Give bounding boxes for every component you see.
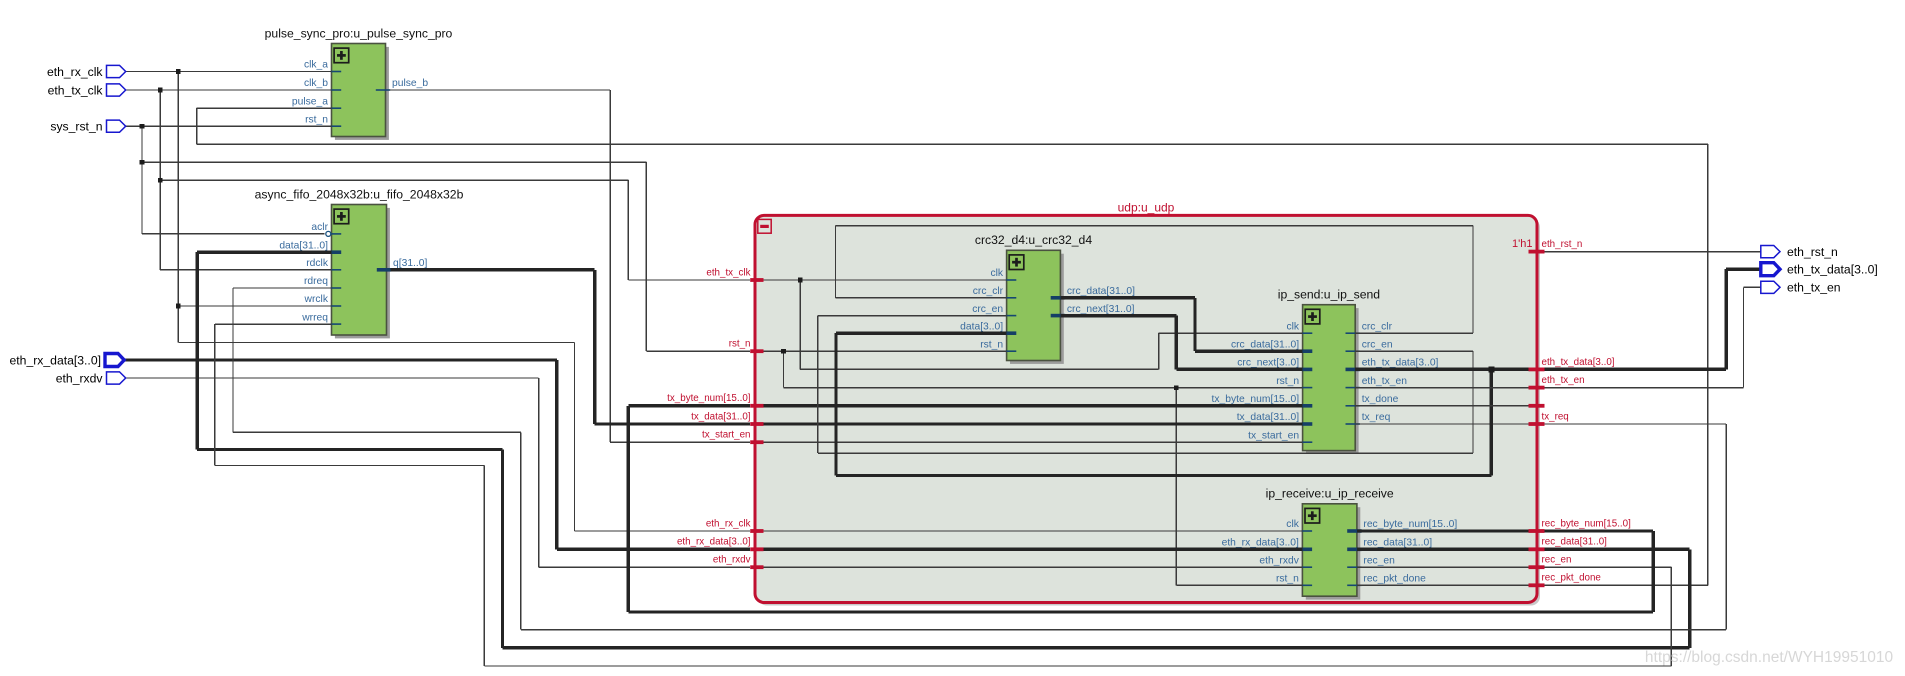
wire net crc_en loop (ip_send crc_en to crc32 crc_en) xyxy=(818,316,1473,454)
svg-text:eth_tx_en: eth_tx_en xyxy=(1787,281,1841,295)
svg-text:sys_rst_n: sys_rst_n xyxy=(50,120,102,134)
svg-text:crc_next[3..0]: crc_next[3..0] xyxy=(1237,358,1299,369)
svg-text:data[31..0]: data[31..0] xyxy=(279,240,328,251)
svg-text:rec_data[31..0]: rec_data[31..0] xyxy=(1542,537,1608,548)
wire net crc_next[31..0] bus (crc32 to ip_send crc_next) xyxy=(1060,316,1302,370)
svg-text:clk: clk xyxy=(991,268,1004,279)
wire net crc_data[31..0] bus (crc32 to ip_send) xyxy=(1060,298,1302,351)
udp port rec_pkt_done (right edge) xyxy=(1529,573,1602,586)
wire net rec_data[31..0] bus (ip_receive rec_data back to fifo data) xyxy=(197,252,1690,648)
svg-text:eth_rxdv: eth_rxdv xyxy=(713,555,751,566)
udp port eth_tx_en (right edge) xyxy=(1529,375,1585,388)
input pin eth_tx_clk xyxy=(48,83,126,97)
output pin eth_tx_data[3..0] xyxy=(1761,263,1878,277)
svg-text:wrclk: wrclk xyxy=(304,294,329,305)
svg-text:rec_pkt_done: rec_pkt_done xyxy=(1542,573,1602,584)
udp port eth_tx_clk (left edge) xyxy=(706,267,763,280)
svg-text:tx_data[31..0]: tx_data[31..0] xyxy=(1237,412,1300,423)
svg-text:pulse_a: pulse_a xyxy=(292,96,328,107)
svg-text:rec_data[31..0]: rec_data[31..0] xyxy=(1363,538,1432,549)
svg-text:eth_rxdv: eth_rxdv xyxy=(1259,555,1299,566)
svg-text:eth_tx_en: eth_tx_en xyxy=(1362,376,1408,387)
svg-text:tx_start_en: tx_start_en xyxy=(702,430,750,441)
svg-text:eth_rst_n: eth_rst_n xyxy=(1542,239,1583,250)
wire net rec_en / wrreq (ip_receive rec_en back to fifo wrreq) xyxy=(215,324,1672,666)
udp port eth_rx_clk (left edge) xyxy=(706,518,764,531)
output pin eth_tx_en xyxy=(1761,281,1841,295)
block ip_send:u_ip_send xyxy=(1212,288,1439,455)
block ip_receive:u_ip_receive xyxy=(1222,487,1458,600)
svg-text:pulse_b: pulse_b xyxy=(392,78,428,89)
udp port eth_tx_data[3..0] (right edge) xyxy=(1529,357,1615,370)
svg-text:tx_req: tx_req xyxy=(1542,411,1569,422)
udp port tx_data[31..0] (left edge) xyxy=(691,411,763,424)
udp port tx_done (right edge) xyxy=(1529,404,1545,408)
svg-text:crc_clr: crc_clr xyxy=(973,286,1004,297)
udp port rst_n (left edge) xyxy=(729,339,764,352)
udp port tx_byte_num[15..0] (left edge) xyxy=(667,393,763,406)
wire net eth_rx_data[3..0] bus (pin to udp port / ip_receive) xyxy=(124,360,1302,549)
svg-text:eth_rx_data[3..0]: eth_rx_data[3..0] xyxy=(10,353,101,367)
svg-text:eth_rxdv: eth_rxdv xyxy=(56,371,104,385)
svg-text:wrreq: wrreq xyxy=(301,312,328,323)
udp port rec_byte_num[15..0] (right edge) xyxy=(1529,518,1632,531)
svg-text:eth_rx_clk: eth_rx_clk xyxy=(706,518,751,529)
svg-text:eth_tx_clk: eth_tx_clk xyxy=(706,267,750,278)
svg-text:udp:u_udp: udp:u_udp xyxy=(1118,201,1175,215)
svg-text:eth_tx_data[3..0]: eth_tx_data[3..0] xyxy=(1787,263,1878,277)
wire net rec_byte_num[15..0] / tx_byte_num bus (ip_receive to udp tx_byte_num / ip_send) xyxy=(628,406,1653,612)
svg-text:rdclk: rdclk xyxy=(306,258,329,269)
udp port eth_rst_n (right edge) with 1'h1 tie xyxy=(1512,238,1582,251)
wire net sys_rst_n (pin to pulse rst_n, fifo aclr, udp rst_n / crc32 ip_send ip_receive rst_n) xyxy=(124,124,1303,585)
wire net eth_rxdv (pin to udp port / ip_receive) xyxy=(124,378,1302,567)
wire net pulse_a / rec_pkt_done (udp rec_pkt_done back to pulse_sync pulse_a) xyxy=(197,108,1708,585)
svg-text:pulse_sync_pro:u_pulse_sync_pr: pulse_sync_pro:u_pulse_sync_pro xyxy=(265,26,453,40)
svg-text:rec_en: rec_en xyxy=(1363,555,1395,566)
svg-text:crc_en: crc_en xyxy=(1362,339,1393,350)
svg-text:eth_tx_clk: eth_tx_clk xyxy=(48,83,104,97)
svg-text:crc_clr: crc_clr xyxy=(1362,321,1393,332)
svg-text:rst_n: rst_n xyxy=(1276,376,1299,387)
svg-text:1'h1: 1'h1 xyxy=(1512,238,1532,250)
svg-text:rst_n: rst_n xyxy=(729,339,751,350)
wire net eth_tx_clk (pin to clk_b, rdclk, udp eth_tx_clk / crc32 clk / ip_send clk) xyxy=(124,88,1303,370)
wire net crc_clr loop (ip_send crc_clr to crc32 crc_clr) xyxy=(836,226,1474,334)
svg-text:clk: clk xyxy=(1286,519,1299,530)
udp port eth_rxdv (left edge) xyxy=(713,555,764,568)
input pin eth_rx_data[3..0] xyxy=(10,353,125,367)
svg-text:tx_done: tx_done xyxy=(1362,394,1399,405)
collapse icon of udp box xyxy=(758,219,771,233)
watermark xyxy=(1645,649,1894,666)
wire net tx_done (ip_send tx_done to unconnected port stub) xyxy=(1355,405,1528,407)
block pulse_sync_pro:u_pulse_sync_pro xyxy=(265,26,453,140)
input pin sys_rst_n xyxy=(50,120,125,134)
output pin eth_rst_n xyxy=(1761,245,1838,259)
svg-text:clk: clk xyxy=(1287,321,1300,332)
svg-text:rec_en: rec_en xyxy=(1542,555,1572,566)
block crc32_d4:u_crc32_d4 xyxy=(960,233,1135,364)
svg-text:crc_data[31..0]: crc_data[31..0] xyxy=(1231,339,1299,350)
svg-text:rst_n: rst_n xyxy=(305,114,328,125)
svg-text:rst_n: rst_n xyxy=(1276,574,1299,585)
svg-text:eth_rx_data[3..0]: eth_rx_data[3..0] xyxy=(677,537,751,548)
svg-text:eth_tx_data[3..0]: eth_tx_data[3..0] xyxy=(1362,358,1439,369)
input pin eth_rxdv xyxy=(56,371,126,385)
block async_fifo_2048x32b:u_fifo_2048x32b xyxy=(255,187,464,338)
svg-text:eth_rx_clk: eth_rx_clk xyxy=(47,65,103,79)
udp port rec_en (right edge) xyxy=(1529,555,1572,568)
svg-text:ip_send:u_ip_send: ip_send:u_ip_send xyxy=(1278,288,1380,302)
svg-text:rec_pkt_done: rec_pkt_done xyxy=(1363,574,1426,585)
wire net q[31..0] / tx_data bus (fifo q to udp tx_data / ip_send) xyxy=(391,270,1303,424)
udp port tx_start_en (left edge) xyxy=(702,430,763,443)
svg-text:aclr: aclr xyxy=(311,222,328,233)
svg-text:rec_byte_num[15..0]: rec_byte_num[15..0] xyxy=(1542,518,1632,529)
wire net eth_rst_n (1'h1 tie to output pin) xyxy=(1545,251,1761,253)
svg-text:async_fifo_2048x32b:u_fifo_204: async_fifo_2048x32b:u_fifo_2048x32b xyxy=(255,187,464,201)
input pin eth_rx_clk xyxy=(47,65,126,79)
svg-text:tx_byte_num[15..0]: tx_byte_num[15..0] xyxy=(667,393,751,404)
svg-text:rec_byte_num[15..0]: rec_byte_num[15..0] xyxy=(1363,519,1457,530)
svg-text:data[3..0]: data[3..0] xyxy=(960,321,1003,332)
svg-text:eth_rst_n: eth_rst_n xyxy=(1787,245,1838,259)
svg-text:rst_n: rst_n xyxy=(980,339,1003,350)
module box udp:u_udp xyxy=(755,201,1540,606)
svg-text:clk_a: clk_a xyxy=(304,60,328,71)
wire net eth_tx_data[3..0] bus (ip_send to output pin and crc32 data loop) xyxy=(836,269,1761,475)
svg-text:rdreq: rdreq xyxy=(304,276,328,287)
svg-text:crc_data[31..0]: crc_data[31..0] xyxy=(1067,286,1135,297)
svg-text:tx_req: tx_req xyxy=(1362,412,1391,423)
svg-text:clk_b: clk_b xyxy=(304,78,328,89)
svg-text:eth_tx_en: eth_tx_en xyxy=(1542,375,1585,386)
udp port rec_data[31..0] (right edge) xyxy=(1529,537,1608,550)
wire net pulse_b / tx_start_en (pulse_sync output to udp tx_start_en / ip_send) xyxy=(390,90,1303,442)
svg-text:tx_start_en: tx_start_en xyxy=(1248,430,1299,441)
udp port eth_rx_data[3..0] (left edge) xyxy=(677,537,764,550)
svg-text:tx_byte_num[15..0]: tx_byte_num[15..0] xyxy=(1212,394,1300,405)
wire net eth_rx_clk (pin to clk_a, wrclk, udp eth_rx_clk / ip_receive clk) xyxy=(124,69,1302,531)
svg-text:q[31..0]: q[31..0] xyxy=(393,258,427,269)
svg-text:tx_data[31..0]: tx_data[31..0] xyxy=(691,411,751,422)
wire net tx_req / rdreq (ip_send tx_req back to fifo rdreq) xyxy=(233,288,1726,630)
svg-text:ip_receive:u_ip_receive: ip_receive:u_ip_receive xyxy=(1266,487,1394,501)
svg-text:https://blog.csdn.net/WYH19951: https://blog.csdn.net/WYH19951010 xyxy=(1645,649,1894,666)
svg-text:crc_next[31..0]: crc_next[31..0] xyxy=(1067,304,1135,315)
svg-text:crc_en: crc_en xyxy=(972,304,1003,315)
svg-text:eth_tx_data[3..0]: eth_tx_data[3..0] xyxy=(1542,357,1615,368)
svg-text:crc32_d4:u_crc32_d4: crc32_d4:u_crc32_d4 xyxy=(975,233,1092,247)
wire net eth_tx_en (ip_send to output pin) xyxy=(1355,287,1761,387)
udp port tx_req (right edge) xyxy=(1529,411,1569,424)
svg-text:eth_rx_data[3..0]: eth_rx_data[3..0] xyxy=(1222,538,1299,549)
